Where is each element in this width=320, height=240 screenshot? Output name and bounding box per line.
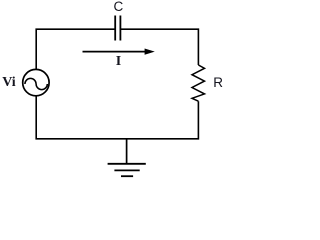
ac source Vi sine wave [25, 78, 47, 89]
capacitor C left plate [114, 16, 116, 41]
ground bar 1 [108, 163, 146, 165]
ground bar 3 [121, 175, 133, 177]
ac source Vi [23, 69, 49, 95]
ground stem [126, 139, 128, 164]
svg-text:I: I [116, 54, 121, 69]
resistor R zigzag [192, 65, 205, 101]
wire top-right segment [120, 29, 198, 65]
wire bottom loop [36, 96, 198, 139]
capacitor C right plate [119, 16, 121, 41]
current arrow I [83, 49, 155, 55]
svg-text:R: R [213, 75, 223, 90]
wire top-left segment [36, 29, 115, 69]
svg-text:C: C [114, 0, 124, 14]
svg-text:Vi: Vi [2, 75, 16, 90]
ground bar 2 [114, 169, 139, 171]
